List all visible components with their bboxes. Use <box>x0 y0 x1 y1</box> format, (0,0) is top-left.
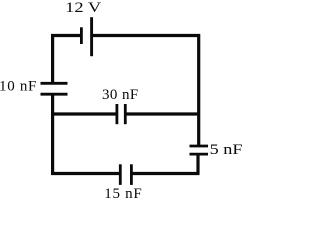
wire right lower segment (C3 bottom plate down to bottom-right corner) <box>196 154 199 173</box>
wire middle-left segment (left wire T-junction to C2 left plate) <box>52 112 117 115</box>
capacitor C2 30 nF <box>117 104 125 124</box>
svg-text:15 nF: 15 nF <box>104 186 142 202</box>
label 15 nF <box>104 186 142 202</box>
label 30 nF <box>102 87 139 103</box>
wire middle-right segment (C2 right plate to right wire junction) <box>126 112 200 115</box>
svg-text:12 V: 12 V <box>65 0 101 16</box>
capacitor C3 5 nF <box>190 146 209 154</box>
wire top-left segment (battery negative to top-left corner) <box>51 34 82 37</box>
capacitor C1 10 nF <box>41 83 68 94</box>
wire left upper segment (top-left corner down to C1 top plate) <box>51 34 54 83</box>
capacitor C4 15 nF <box>120 164 131 185</box>
svg-text:10 nF: 10 nF <box>0 79 37 95</box>
wire left lower segment (C1 bottom plate down to bottom-left corner) <box>51 94 54 175</box>
label 5 nF <box>210 142 243 158</box>
battery V1 12 V <box>81 17 91 56</box>
svg-text:5 nF: 5 nF <box>210 142 242 158</box>
svg-text:30 nF: 30 nF <box>102 87 139 103</box>
wire bottom-right segment (C4 right plate to bottom-right corner) <box>132 172 200 175</box>
label 12 V <box>65 0 101 16</box>
wire bottom-left segment (bottom-left corner to C4 left plate) <box>51 172 120 175</box>
wire top-right segment (battery positive to top-right corner) <box>92 34 201 37</box>
label 10 nF <box>0 79 37 95</box>
wire right upper segment (top-right corner down to C3 top plate) <box>197 34 200 146</box>
